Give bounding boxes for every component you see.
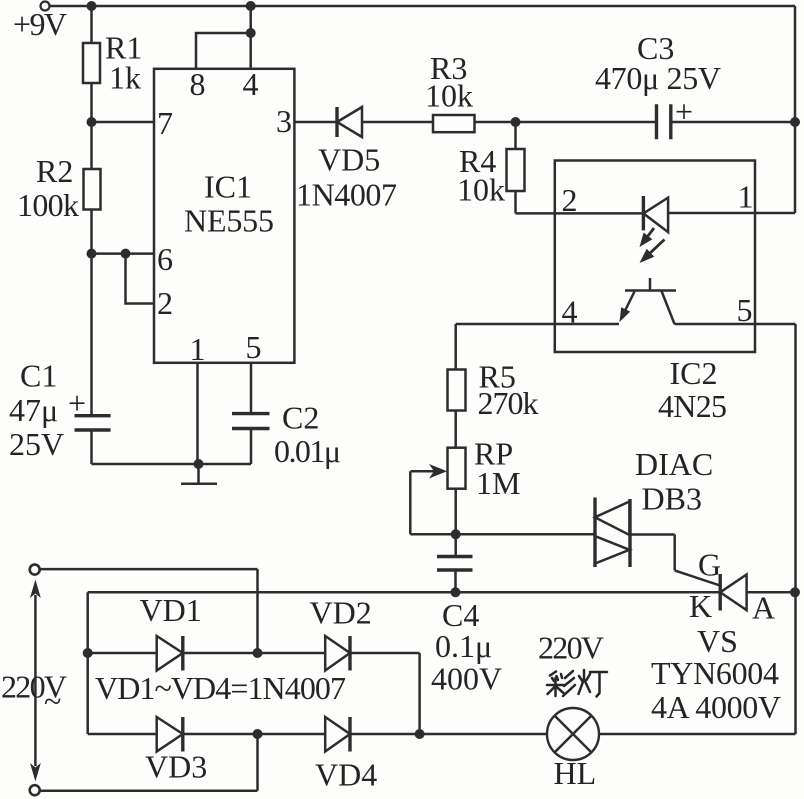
svg-text:4A 4000V: 4A 4000V — [651, 689, 781, 725]
svg-text:C2: C2 — [282, 400, 319, 436]
svg-text:5: 5 — [246, 329, 262, 365]
svg-text:0.01μ: 0.01μ — [274, 433, 341, 469]
svg-text:47μ: 47μ — [9, 392, 58, 428]
svg-text:+9V: +9V — [13, 6, 67, 42]
svg-text:TYN6004: TYN6004 — [651, 655, 779, 691]
svg-text:470μ 25V: 470μ 25V — [595, 60, 721, 96]
svg-text:VS: VS — [697, 623, 738, 659]
svg-text:R2: R2 — [36, 153, 73, 189]
svg-text:7: 7 — [157, 105, 173, 141]
svg-text:1: 1 — [738, 179, 754, 215]
svg-text:DIAC: DIAC — [635, 446, 713, 482]
svg-text:10k: 10k — [457, 172, 505, 208]
svg-text:5: 5 — [737, 292, 753, 328]
svg-text:6: 6 — [157, 241, 173, 277]
svg-text:~: ~ — [44, 683, 61, 719]
svg-text:DB3: DB3 — [642, 481, 702, 517]
svg-text:4: 4 — [243, 66, 259, 102]
svg-text:1k: 1k — [109, 60, 141, 96]
svg-text:+: + — [675, 94, 693, 130]
svg-text:25V: 25V — [9, 426, 64, 462]
svg-text:K: K — [689, 588, 712, 624]
svg-text:G: G — [698, 547, 721, 583]
svg-text:2: 2 — [562, 182, 578, 218]
svg-text:10k: 10k — [425, 78, 473, 114]
svg-text:A: A — [752, 590, 775, 626]
svg-text:NE555: NE555 — [184, 203, 274, 239]
svg-text:IC1: IC1 — [204, 169, 252, 205]
svg-text:400V: 400V — [431, 661, 502, 697]
svg-text:100k: 100k — [17, 187, 79, 223]
svg-text:C1: C1 — [20, 358, 57, 394]
svg-text:1: 1 — [190, 331, 206, 367]
svg-text:VD5: VD5 — [318, 142, 380, 178]
svg-text:8: 8 — [190, 66, 206, 102]
svg-text:3: 3 — [276, 103, 292, 139]
svg-text:0.1μ: 0.1μ — [435, 628, 492, 664]
svg-text:270k: 270k — [478, 385, 539, 421]
svg-text:IC2: IC2 — [670, 355, 718, 391]
svg-text:220V: 220V — [538, 630, 604, 666]
svg-text:+: + — [68, 385, 86, 421]
svg-text:1N4007: 1N4007 — [296, 177, 397, 213]
svg-text:HL: HL — [554, 755, 597, 791]
svg-text:VD3: VD3 — [145, 749, 207, 785]
svg-text:VD4: VD4 — [315, 757, 377, 793]
svg-text:1M: 1M — [476, 465, 520, 501]
svg-text:2: 2 — [157, 285, 173, 321]
svg-text:VD1~VD4=1N4007: VD1~VD4=1N4007 — [95, 670, 346, 706]
svg-text:4N25: 4N25 — [658, 388, 727, 424]
svg-text:VD1: VD1 — [140, 592, 202, 628]
svg-text:VD2: VD2 — [310, 595, 372, 631]
